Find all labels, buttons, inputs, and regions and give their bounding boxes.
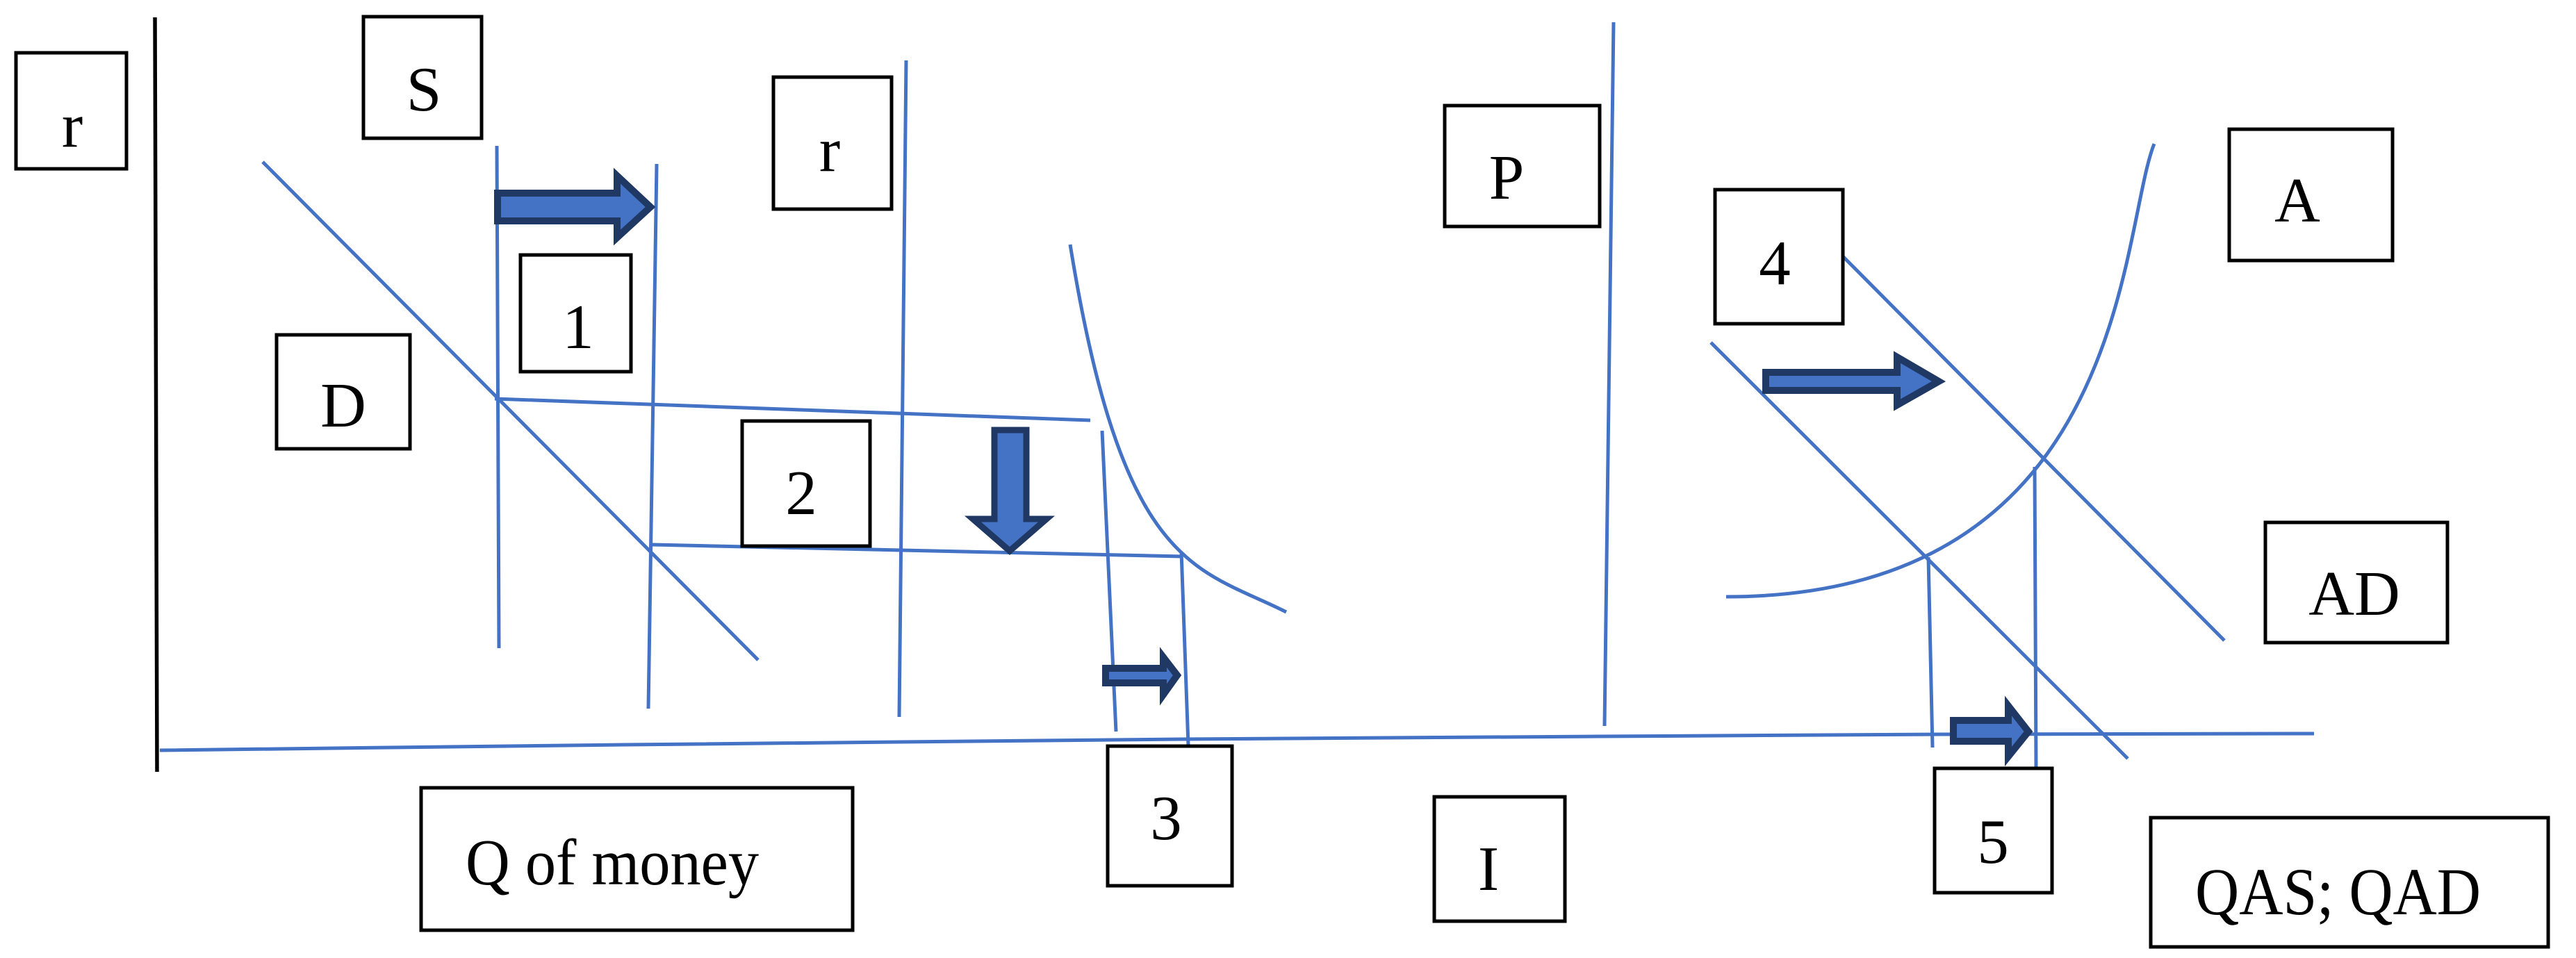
arrow right AD shift bbox=[1766, 357, 1939, 405]
svg-text:S: S bbox=[407, 54, 442, 124]
wire dropline Q1 bbox=[1928, 557, 1933, 748]
svg-text:I: I bbox=[1478, 834, 1499, 904]
label box 3 bbox=[1108, 746, 1232, 886]
svg-text:P: P bbox=[1489, 142, 1525, 213]
svg-text:r: r bbox=[819, 115, 840, 185]
svg-text:Q of money: Q of money bbox=[466, 827, 759, 899]
aggregate demand AD1 bbox=[1711, 342, 2128, 759]
aggregate supply curve A bbox=[1726, 144, 2154, 597]
label box Q of money bbox=[421, 788, 853, 930]
money demand curve D bbox=[263, 162, 758, 660]
wire I1 vertical bbox=[1102, 431, 1116, 732]
label box r (investment) bbox=[773, 77, 892, 209]
svg-text:2: 2 bbox=[785, 458, 817, 528]
svg-text:A: A bbox=[2274, 165, 2320, 236]
svg-text:AD: AD bbox=[2308, 559, 2399, 629]
arrow down interest rate bbox=[973, 430, 1047, 551]
svg-text:QAS; QAD: QAS; QAD bbox=[2195, 854, 2481, 929]
arrow right output bbox=[1953, 706, 2028, 757]
arrow right shift money supply bbox=[498, 176, 650, 238]
svg-text:r: r bbox=[62, 90, 83, 160]
vertical axis middle diagram bbox=[899, 60, 906, 717]
label box 2 bbox=[742, 421, 870, 546]
label box A bbox=[2229, 129, 2393, 261]
svg-text:3: 3 bbox=[1150, 783, 1182, 853]
label box r (money market) bbox=[16, 53, 126, 169]
svg-text:4: 4 bbox=[1759, 228, 1791, 298]
label box D bbox=[277, 335, 410, 449]
wire r1 level bbox=[495, 399, 1090, 420]
investment demand curve bbox=[1070, 245, 1286, 612]
vertical axis r (black) bbox=[155, 17, 157, 772]
aggregate demand AD2 bbox=[1843, 256, 2224, 641]
wire horizontal bottom axis bbox=[160, 734, 2314, 750]
wire I2 vertical bbox=[1181, 552, 1188, 745]
label box QAS QAD bbox=[2151, 818, 2548, 947]
label box P bbox=[1445, 106, 1600, 226]
wire dropline Q2 bbox=[2035, 467, 2036, 768]
money supply S1 bbox=[497, 146, 499, 648]
label box S bbox=[363, 17, 482, 138]
label box I bbox=[1434, 797, 1565, 921]
svg-text:D: D bbox=[320, 370, 366, 440]
svg-text:5: 5 bbox=[1977, 807, 2009, 877]
vertical axis P bbox=[1605, 22, 1614, 726]
label box 5 bbox=[1935, 768, 2052, 893]
wire r2 level bbox=[652, 545, 1183, 556]
svg-text:1: 1 bbox=[562, 292, 594, 362]
label box 1 bbox=[520, 255, 631, 372]
arrow right investment bbox=[1106, 657, 1177, 695]
label box 4 bbox=[1715, 190, 1843, 324]
label box AD bbox=[2265, 522, 2447, 643]
money supply S2 bbox=[648, 164, 657, 709]
